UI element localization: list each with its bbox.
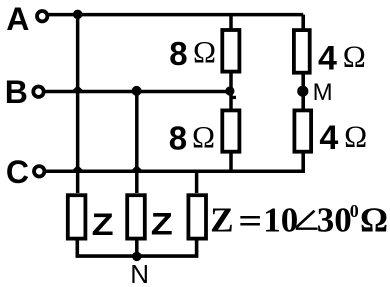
svg-text:30: 30	[317, 201, 352, 240]
svg-text:=: =	[238, 201, 262, 240]
svg-text:Ω: Ω	[193, 34, 216, 69]
svg-text:Ω: Ω	[343, 39, 366, 74]
svg-text:0: 0	[350, 201, 359, 221]
svg-text:A: A	[6, 1, 29, 37]
svg-text:Ω: Ω	[192, 119, 215, 154]
svg-text:B: B	[5, 74, 28, 110]
svg-text:10: 10	[263, 201, 298, 240]
svg-text:8: 8	[169, 35, 187, 72]
svg-text:4: 4	[319, 119, 338, 157]
svg-text:Ω: Ω	[360, 201, 388, 240]
svg-text:Z: Z	[92, 206, 114, 242]
svg-text:8: 8	[169, 120, 187, 157]
svg-text:M: M	[313, 79, 333, 106]
svg-text:N: N	[130, 259, 149, 287]
svg-text:Z: Z	[210, 201, 233, 240]
svg-text:C: C	[6, 154, 29, 190]
svg-text:4: 4	[318, 40, 337, 78]
svg-text:Ω: Ω	[344, 119, 367, 154]
svg-text:Z: Z	[151, 205, 173, 241]
